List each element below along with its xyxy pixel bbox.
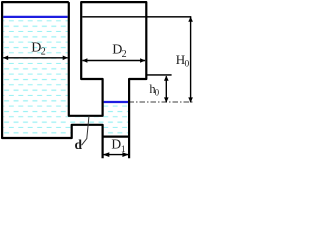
water fill left tank <box>3 17 69 137</box>
svg-text:d: d <box>75 137 83 152</box>
water fill tank bottom corner <box>66 124 72 137</box>
blue water line right tube <box>104 101 128 103</box>
hydraulic two-vessel diagram <box>0 0 195 160</box>
svg-text:D: D <box>111 137 121 152</box>
svg-text:2: 2 <box>122 49 127 60</box>
D2 arrow right vessel <box>82 58 145 63</box>
svg-text:2: 2 <box>41 47 46 58</box>
left tank outline: top, left, bottom, step up, passage bottom, tube left wall extension <box>2 2 103 158</box>
D1 arrow <box>103 152 129 157</box>
svg-text:0: 0 <box>185 60 190 70</box>
d pointer line <box>82 116 89 145</box>
water fill right tube <box>103 102 128 137</box>
tank right wall, passage top wall, tube left wall, left step, wide left wall, top, right wall, right step, tube right wall <box>69 2 147 158</box>
tube bottom <box>103 136 130 138</box>
grey dash-dot reference line <box>129 101 194 103</box>
D2 arrow left tank <box>3 56 68 61</box>
blue water line left tank <box>3 16 68 18</box>
svg-text:1: 1 <box>121 145 126 155</box>
svg-text:0: 0 <box>155 88 160 98</box>
H0 reference line top <box>82 16 191 18</box>
h0 arrow <box>164 76 169 103</box>
h0 reference line <box>146 74 171 76</box>
water fill passage <box>66 117 104 124</box>
H0 arrow <box>188 17 193 103</box>
